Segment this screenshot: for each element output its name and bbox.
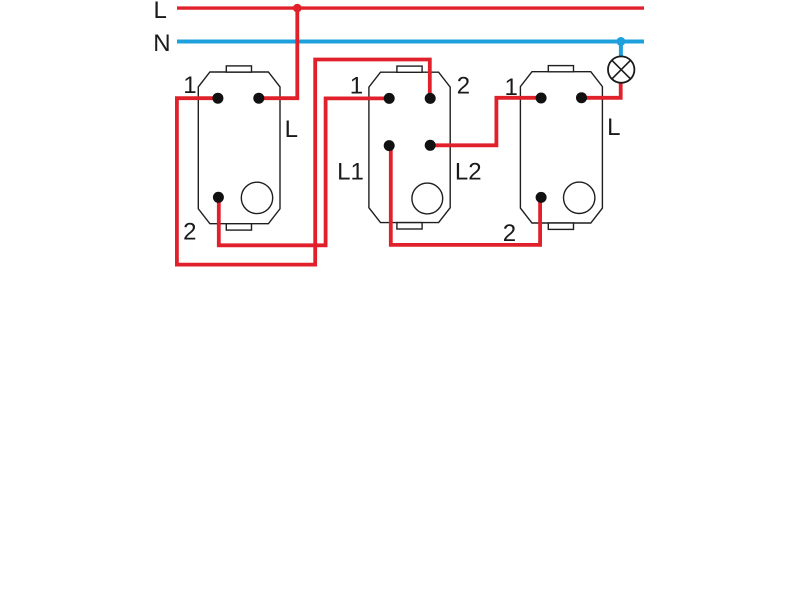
S3 terminal L dot — [576, 92, 587, 103]
switch S3 bottom tab — [548, 223, 573, 229]
switch S2 rocker circle — [412, 183, 443, 214]
switch S3 body — [520, 66, 602, 230]
wire: N drop to lamp — [619, 42, 623, 58]
wire: S3 terminal L to lamp — [582, 83, 621, 98]
wire: S1 terminal 2 to S2 terminal 1 — [219, 98, 389, 245]
switch S1 bottom tab — [226, 224, 251, 230]
S1 terminal L dot — [253, 93, 264, 104]
svg-text:2: 2 — [457, 72, 470, 99]
wire: S2 terminal L1 to S3 terminal 2 — [391, 146, 540, 245]
wire: S1 terminal 1 to S2 terminal 2 — [177, 60, 430, 265]
svg-text:L2: L2 — [455, 158, 482, 185]
S1 terminal 2 dot — [213, 192, 224, 203]
svg-text:L: L — [154, 0, 167, 24]
svg-text:1: 1 — [350, 72, 363, 99]
S1 terminal 1 dot — [212, 93, 223, 104]
switch S1 top tab — [226, 66, 251, 72]
svg-text:2: 2 — [183, 218, 196, 245]
node: L junction — [293, 4, 302, 13]
S2 terminal L1 dot — [384, 140, 395, 151]
wire: S2 terminal L2 to S3 terminal 1 — [430, 98, 541, 146]
wire: N rail — [177, 40, 644, 44]
S2 terminal 2 dot — [425, 93, 436, 104]
S3 terminal 1 dot — [536, 93, 547, 104]
switch S3 rocker circle — [564, 182, 595, 213]
svg-text:1: 1 — [183, 72, 196, 99]
wire: L rail — [177, 6, 644, 9]
lamp E1 — [608, 56, 634, 82]
svg-text:2: 2 — [503, 220, 516, 247]
svg-text:N: N — [153, 30, 170, 57]
wire: L feed to S1 terminal L — [259, 8, 298, 98]
switch S2 body — [369, 66, 450, 229]
switch S2 bottom tab — [397, 223, 422, 229]
svg-text:L1: L1 — [337, 158, 364, 185]
svg-text:L: L — [285, 116, 298, 143]
switch S2 top tab — [397, 66, 422, 72]
node: N junction — [616, 37, 625, 46]
svg-text:1: 1 — [505, 74, 518, 101]
S2 terminal 1 dot — [384, 93, 395, 104]
switch S1 rocker circle — [241, 182, 272, 213]
S3 terminal 2 dot — [536, 192, 547, 203]
switch S3 top tab — [548, 66, 573, 72]
S2 terminal L2 dot — [425, 140, 436, 151]
switch S1 body — [198, 66, 280, 230]
svg-text:L: L — [607, 114, 620, 141]
